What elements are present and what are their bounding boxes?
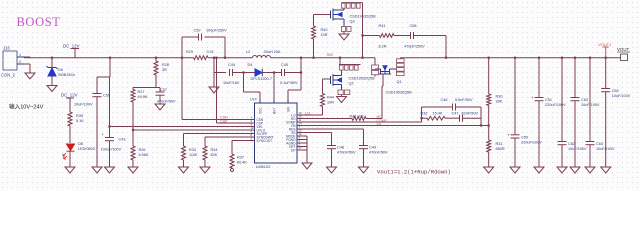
svg-text:R33: R33 — [189, 148, 196, 152]
svg-text:1: 1 — [19, 53, 21, 57]
svg-text:SMBJ30A: SMBJ30A — [58, 73, 75, 77]
mosfet Q2 CSD19532Q5B low-side — [339, 57, 341, 59]
ground C50 — [510, 167, 520, 173]
ground J13 pin2 — [24, 63, 30, 65]
svg-text:VOUT1: VOUT1 — [598, 42, 612, 47]
svg-text:100uF/100V: 100uF/100V — [101, 148, 122, 152]
resistor R37 60.4K — [231, 141, 233, 155]
svg-text:82K: 82K — [211, 153, 218, 157]
capacitor C44 10uF/16V — [229, 69, 231, 76]
svg-text:0.1uF/50V: 0.1uF/50V — [280, 81, 298, 85]
svg-text:D8: D8 — [78, 142, 83, 146]
svg-text:470nF/50V: 470nF/50V — [337, 151, 356, 155]
wire Q1 gate riser to HO — [382, 74, 384, 86]
svg-text:R28: R28 — [162, 63, 169, 67]
wire input rail — [24, 57, 194, 59]
svg-text:R30: R30 — [496, 95, 503, 99]
svg-text:49.9K: 49.9K — [138, 95, 148, 99]
svg-text:R27: R27 — [138, 90, 145, 94]
svg-text:C63: C63 — [581, 98, 588, 102]
svg-text:D4: D4 — [248, 63, 253, 67]
wire J13 pin1 to input rail — [24, 56, 30, 58]
svg-text:SW: SW — [327, 52, 334, 57]
wire R27/C57 node — [133, 87, 160, 89]
ground C48 — [327, 167, 337, 173]
svg-text:5.1K: 5.1K — [76, 119, 84, 123]
wire VIN row — [110, 126, 250, 128]
ground R33 — [179, 167, 189, 173]
ground C56 — [92, 167, 102, 173]
capacitor C46 5.6nF/50V — [452, 104, 454, 111]
svg-text:Q3: Q3 — [350, 20, 355, 24]
pads Q2 drain — [339, 64, 361, 66]
svg-text:C49: C49 — [369, 146, 376, 150]
svg-text:C62: C62 — [568, 142, 575, 146]
svg-text:BST: BST — [273, 108, 277, 114]
svg-text:C58: C58 — [410, 24, 417, 28]
capacitor C62 10uF/100V — [561, 57, 563, 59]
wire UVLO row — [133, 129, 249, 131]
resistor R32 15.4K — [427, 116, 445, 120]
wire SYNCIN row — [205, 136, 249, 138]
snubber junction — [361, 34, 363, 36]
svg-text:L2: L2 — [246, 50, 250, 54]
pads Q1 right — [397, 59, 405, 63]
capacitor C43 100uF/100V — [109, 77, 111, 138]
svg-text:DC_12V: DC_12V — [61, 93, 78, 98]
ground C49 — [359, 167, 369, 173]
wire COMP row — [301, 121, 422, 123]
wire IC gnd bundle — [301, 135, 307, 137]
svg-text:100pF/250V: 100pF/250V — [206, 29, 227, 33]
svg-text:U14: U14 — [250, 98, 257, 102]
svg-text:8.2R: 8.2R — [379, 45, 387, 49]
svg-text:680R: 680R — [496, 147, 505, 151]
svg-text:470nF/50V: 470nF/50V — [157, 100, 176, 104]
svg-text:60.4K: 60.4K — [237, 161, 247, 165]
capacitor C57 470nF/50V — [159, 88, 161, 93]
ground C51 — [534, 167, 544, 173]
wire C44 branch + ground — [213, 57, 215, 59]
svg-text:D6: D6 — [58, 68, 63, 72]
ground C57 — [155, 104, 165, 110]
svg-text:10uF/16V: 10uF/16V — [223, 81, 240, 85]
svg-text:R40: R40 — [321, 28, 328, 32]
svg-text:C48: C48 — [337, 146, 344, 150]
ground Q3 — [339, 34, 349, 40]
wire RES row to C49 — [301, 128, 364, 130]
svg-text:LED/0603: LED/0603 — [78, 147, 95, 151]
wire CSN row — [182, 119, 249, 121]
svg-text:82nF/50V: 82nF/50V — [462, 112, 479, 116]
svg-text:Q1: Q1 — [397, 80, 402, 84]
pads Q3 source — [342, 27, 346, 32]
svg-text:220uF/100V: 220uF/100V — [545, 103, 566, 107]
feedback divider R30 39K — [488, 57, 490, 59]
wire HO row with R48 10R — [301, 118, 352, 120]
svg-text:0.01: 0.01 — [207, 50, 214, 54]
svg-text:SW: SW — [287, 107, 291, 112]
mosfet Q1 CSD19532Q5B sync — [374, 58, 376, 65]
svg-text:C46: C46 — [441, 98, 448, 102]
svg-text:EP: EP — [291, 148, 295, 152]
ground C44 — [209, 87, 219, 93]
wire dogleg to C56/C43 columns — [109, 57, 111, 59]
pads Q1 left — [372, 65, 379, 69]
wire Q3 drain riser to SW rail — [362, 3, 364, 58]
svg-text:R29: R29 — [186, 50, 193, 54]
svg-text:C45: C45 — [281, 63, 288, 67]
wire snubber to output rail — [445, 36, 447, 58]
svg-text:C47: C47 — [452, 112, 459, 116]
svg-text:C43: C43 — [119, 138, 126, 142]
wire FB row — [301, 125, 489, 127]
svg-text:R32: R32 — [421, 112, 428, 116]
connector J13 — [3, 51, 17, 70]
resistor R41 8.2R — [380, 34, 395, 38]
ground D8 — [65, 167, 75, 173]
ground R31 — [484, 167, 494, 173]
svg-text:C57: C57 — [160, 88, 167, 92]
svg-text:CSD19532Q5B: CSD19532Q5B — [349, 77, 376, 81]
svg-text:R44: R44 — [327, 96, 334, 100]
resistor R31 680R — [487, 140, 491, 152]
capacitor C49 470nF/50V — [359, 145, 368, 147]
svg-text:CON_2: CON_2 — [1, 73, 16, 78]
wire VCC riser — [243, 73, 245, 93]
svg-text:10uF/100V: 10uF/100V — [74, 103, 93, 107]
svg-text:+: + — [102, 132, 105, 137]
svg-text:Q2: Q2 — [349, 82, 354, 86]
ground D6 — [47, 86, 57, 92]
svg-text:C50: C50 — [521, 135, 528, 139]
wire BST riser — [273, 73, 275, 104]
ground C43 — [105, 167, 115, 173]
svg-text:10uF/100V: 10uF/100V — [581, 103, 600, 107]
capacitor C51 220uF/100V — [538, 57, 540, 59]
wire LO row — [301, 114, 323, 116]
svg-text:+: + — [531, 95, 534, 100]
wire CSN tap — [181, 58, 183, 120]
svg-text:C55: C55 — [612, 89, 619, 93]
svg-text:15.4K: 15.4K — [433, 112, 443, 116]
svg-text:R35: R35 — [76, 114, 83, 118]
svg-text:C59: C59 — [194, 29, 201, 33]
led D8 LED/0603 — [67, 144, 75, 151]
ic U14 LM5122 — [255, 103, 298, 163]
wire SS row to C48 — [301, 132, 332, 134]
svg-text:R26: R26 — [139, 148, 146, 152]
resistor R26 6.96K — [131, 146, 135, 160]
svg-text:39K: 39K — [496, 100, 503, 104]
svg-text:SYNCOUT: SYNCOUT — [257, 139, 273, 143]
svg-text:110K: 110K — [189, 153, 198, 157]
svg-text:R34: R34 — [211, 148, 218, 152]
svg-text:LM5122: LM5122 — [256, 164, 271, 169]
svg-text:Vout1=1.2(1+Rup/Rdown): Vout1=1.2(1+Rup/Rdown) — [377, 169, 451, 176]
wire SW riser to pin — [300, 71, 302, 73]
ground C64 — [585, 167, 595, 173]
svg-text:2: 2 — [19, 60, 21, 64]
ground R34 — [200, 167, 210, 173]
ground C62 — [557, 167, 567, 173]
resistor R35 5.1K — [68, 112, 72, 126]
svg-text:33uH 20A: 33uH 20A — [264, 50, 281, 54]
ground Q2 source — [337, 97, 347, 103]
pads Q2 source — [338, 90, 343, 95]
wire comp top branch — [422, 106, 453, 108]
wire SLOPE row — [184, 133, 250, 135]
svg-text:+: + — [507, 132, 510, 137]
svg-text:3R: 3R — [162, 68, 167, 72]
resistor R40 10R gate — [312, 57, 314, 59]
svg-text:VCC: VCC — [259, 107, 263, 114]
capacitor C45 0.1uF/50V — [281, 69, 283, 76]
svg-text:10R: 10R — [321, 33, 328, 37]
resistor R34 82K — [204, 137, 206, 146]
capacitor C64 10uF/100V — [589, 57, 591, 59]
svg-text:CSD19532Q5B: CSD19532Q5B — [386, 91, 413, 95]
resistor R44 10R — [322, 79, 324, 94]
svg-text:BOOST: BOOST — [17, 15, 61, 29]
wire comp bottom branch — [422, 117, 428, 119]
sense resistor R29 0.01 — [194, 56, 209, 60]
svg-text:C51: C51 — [545, 98, 552, 102]
resistor R33 110K — [183, 134, 185, 147]
wire SYNCOUT row — [232, 140, 249, 142]
pads Q3 drain — [342, 2, 363, 4]
svg-text:输入10V~24V: 输入10V~24V — [9, 103, 44, 111]
capacitor C56 10uF/100V — [96, 77, 98, 94]
capacitor C59 100pF/250V bridging R29 — [181, 57, 183, 59]
svg-text:VOUT: VOUT — [617, 47, 630, 52]
svg-text:6.96K: 6.96K — [139, 153, 149, 157]
wire comp to FB — [480, 107, 482, 126]
capacitor C50 220uF/100V — [514, 57, 516, 59]
svg-text:10uF/100V: 10uF/100V — [612, 94, 631, 98]
capacitor C48 470nF/50V — [327, 145, 336, 147]
svg-text:DC_12V: DC_12V — [63, 44, 80, 49]
svg-text:C44: C44 — [228, 63, 235, 67]
svg-text:C56: C56 — [103, 94, 110, 98]
compensation network COMP — [421, 107, 423, 122]
wire CSP tap — [215, 57, 217, 59]
ground C55 — [601, 167, 611, 173]
svg-text:C64: C64 — [596, 142, 603, 146]
svg-text:470nF/50V: 470nF/50V — [369, 151, 388, 155]
svg-text:470pF/250V: 470pF/250V — [404, 45, 425, 49]
ground C63 — [570, 167, 580, 173]
capacitor C47 82nF/50V — [459, 115, 461, 122]
svg-text:R31: R31 — [496, 142, 503, 146]
svg-text:J13: J13 — [3, 46, 10, 51]
capacitor C55 10uF/100V — [605, 57, 607, 59]
ground R26 — [128, 167, 138, 173]
svg-text:R37: R37 — [237, 156, 244, 160]
wire output rail — [401, 57, 621, 59]
svg-text:R41: R41 — [379, 24, 386, 28]
svg-text:R48 10R: R48 10R — [350, 114, 365, 118]
svg-text:DFLS1200-7: DFLS1200-7 — [251, 77, 273, 81]
mosfet Q3 CSD19532Q5B — [314, 14, 331, 16]
wire Q2 gate to R44 — [323, 78, 331, 80]
svg-text:5.6nF/50V: 5.6nF/50V — [455, 98, 473, 102]
wire CSP row — [217, 122, 250, 124]
resistor R28 3R — [155, 57, 157, 59]
svg-text:10R: 10R — [327, 101, 334, 105]
svg-text:10uF/100V: 10uF/100V — [568, 147, 587, 151]
tvs diode D6 SMBJ30A — [51, 57, 53, 59]
resistor R27 49.9K — [131, 90, 135, 103]
capacitor C58 470pF/250V — [410, 32, 412, 39]
capacitor C63 10uF/100V — [574, 57, 576, 59]
inductor L2 33uH 20A — [253, 55, 271, 57]
ground IC pins — [302, 163, 312, 169]
diode D4 DFLS1200-7 — [255, 69, 262, 76]
